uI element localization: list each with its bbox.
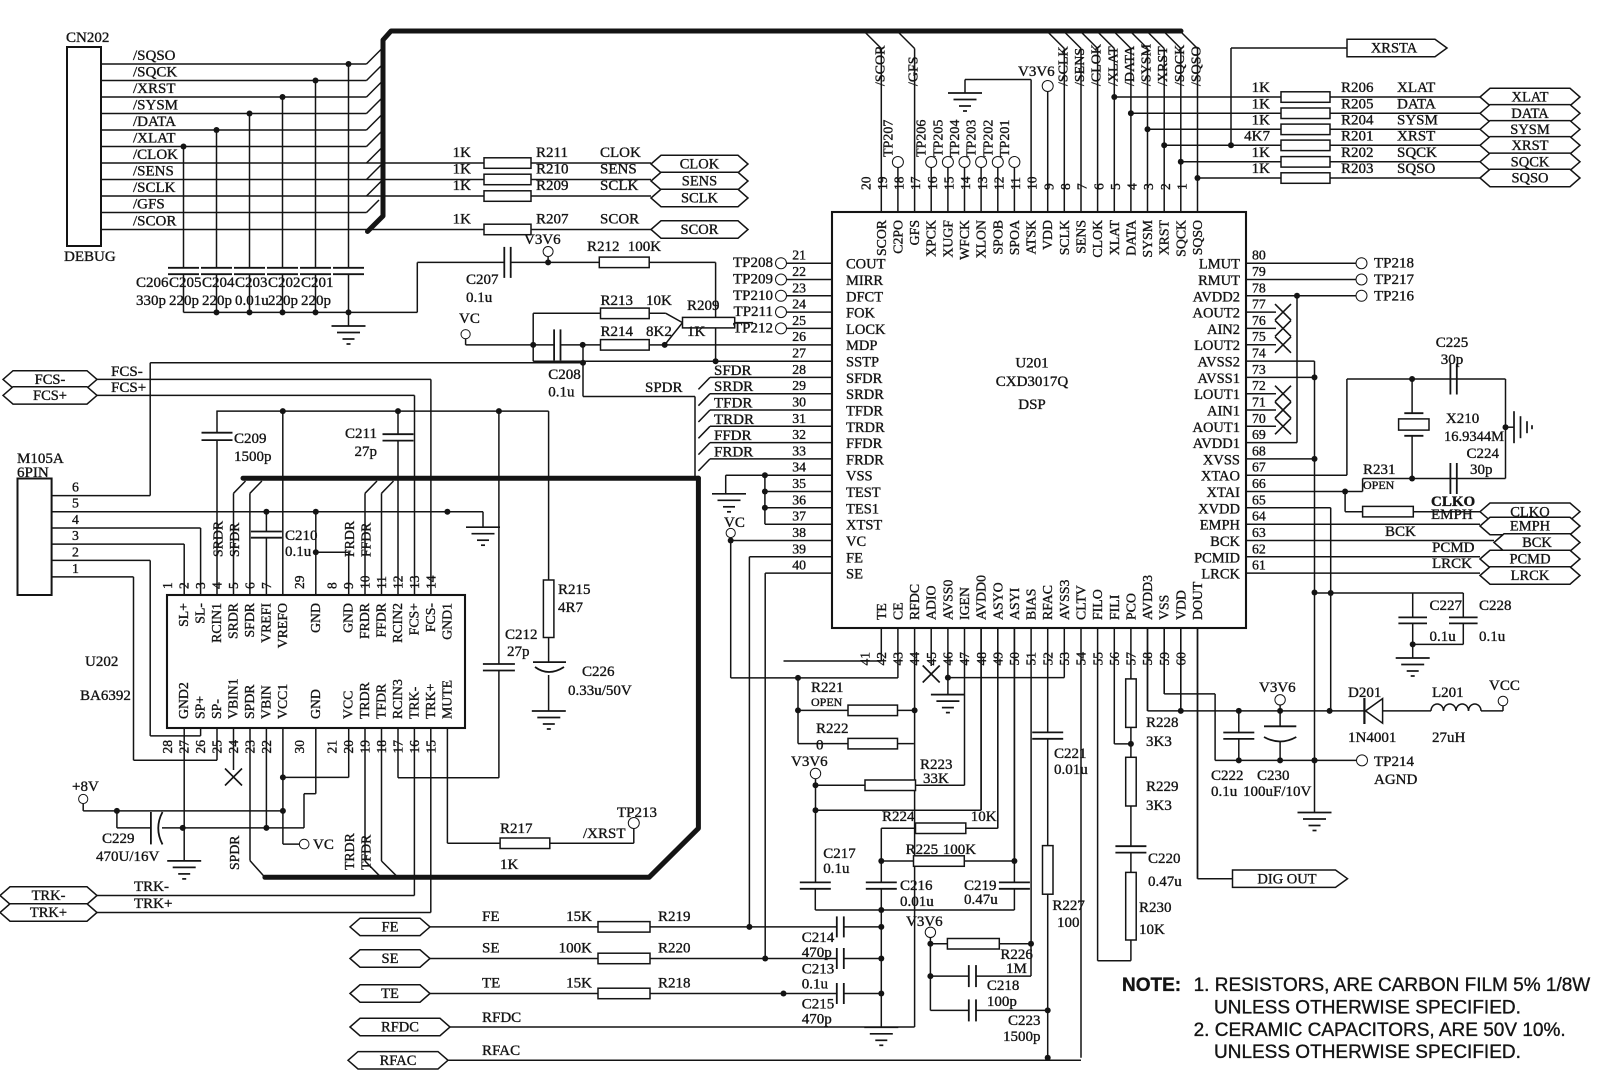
svg-text:SRDR: SRDR [846,387,884,403]
svg-text:R207: R207 [536,212,569,228]
svg-text:AVSS2: AVSS2 [1198,355,1240,371]
svg-text:3K3: 3K3 [1146,798,1172,814]
svg-text:220p: 220p [301,293,331,309]
svg-text:DATA: DATA [1397,96,1436,112]
svg-text:33: 33 [792,443,806,458]
svg-text:BIAS: BIAS [1024,589,1039,620]
svg-text:R206: R206 [1341,80,1374,96]
svg-text:TP216: TP216 [1374,288,1415,304]
svg-text:FFDR: FFDR [374,602,389,637]
svg-text:SSTP: SSTP [846,355,879,371]
svg-text:16.9344M: 16.9344M [1444,429,1504,445]
svg-text:ASYI: ASYI [1007,587,1022,620]
svg-text:SRDR: SRDR [714,379,753,395]
svg-text:62: 62 [1252,541,1266,556]
svg-text:67: 67 [1252,460,1266,475]
svg-text:15: 15 [942,176,957,190]
svg-text:/GFS: /GFS [907,56,922,86]
svg-text:SCLK: SCLK [681,191,719,207]
svg-text:4: 4 [72,512,79,527]
svg-text:DEBUG: DEBUG [64,249,116,265]
svg-text:29: 29 [792,378,806,393]
svg-text:C216: C216 [900,878,933,894]
svg-text:C207: C207 [466,272,499,288]
svg-text:SCOR: SCOR [600,212,639,228]
svg-text:R214: R214 [601,324,634,340]
svg-text:FRDR: FRDR [357,602,372,639]
svg-text:C218: C218 [987,978,1020,994]
svg-text:VCC1: VCC1 [275,684,290,719]
svg-text:SPDR: SPDR [227,835,242,870]
svg-text:1K: 1K [500,857,519,873]
svg-text:0.47u: 0.47u [1148,874,1182,890]
svg-text:10K: 10K [971,809,997,825]
svg-text:FCS+: FCS+ [33,388,67,404]
svg-text:VREFO: VREFO [275,603,290,648]
svg-text:PCMID: PCMID [1194,550,1240,566]
svg-text:FE: FE [482,909,500,925]
svg-text:C210: C210 [285,528,318,544]
svg-text:FRDR: FRDR [714,444,753,460]
svg-text:100: 100 [1057,915,1080,931]
svg-text:CE: CE [890,602,905,620]
svg-text:C205: C205 [169,275,202,291]
svg-text:0.1u: 0.1u [802,977,829,993]
svg-text:R205: R205 [1341,96,1374,112]
svg-text:LOUT1: LOUT1 [1194,387,1240,403]
svg-text:SE: SE [846,567,863,583]
svg-text:SFDR: SFDR [242,602,257,637]
svg-text:C215: C215 [802,997,835,1013]
svg-text:EMPH: EMPH [1510,519,1551,535]
svg-text:R218: R218 [658,976,691,992]
svg-text:R224: R224 [882,809,915,825]
svg-text:FE: FE [846,550,863,566]
svg-text:76: 76 [1252,313,1266,328]
svg-text:C227: C227 [1430,598,1463,614]
svg-text:R220: R220 [658,941,691,957]
svg-text:TP205: TP205 [931,120,946,157]
svg-text:0.1u: 0.1u [466,290,493,306]
svg-text:C206: C206 [136,275,169,291]
svg-text:SQCK: SQCK [1511,155,1550,171]
svg-text:MIRR: MIRR [846,273,883,289]
svg-text:21: 21 [325,740,340,754]
svg-text:41: 41 [857,652,872,666]
svg-text:VDD: VDD [1040,220,1055,250]
svg-text:C224: C224 [1467,446,1500,462]
svg-text:70: 70 [1252,411,1266,426]
svg-text:13: 13 [975,176,990,190]
svg-text:30: 30 [792,395,806,410]
svg-text:6: 6 [1091,183,1106,190]
svg-text:DOUT: DOUT [1190,581,1205,620]
svg-text:UNLESS OTHERWISE SPECIFIED.: UNLESS OTHERWISE SPECIFIED. [1214,1042,1521,1063]
svg-text:65: 65 [1252,492,1266,507]
svg-text:TP203: TP203 [965,120,980,157]
svg-text:27uH: 27uH [1432,730,1466,746]
svg-text:SQCK: SQCK [1173,220,1188,257]
svg-text:470p: 470p [802,1012,832,1028]
svg-text:16: 16 [925,176,940,190]
svg-text:SPDR: SPDR [645,380,683,396]
svg-text:100p: 100p [987,994,1017,1010]
svg-text:68: 68 [1252,443,1266,458]
svg-text:19: 19 [875,176,890,190]
svg-text:EMPH: EMPH [1200,518,1241,534]
svg-text:SQSO: SQSO [1397,161,1436,177]
svg-text:25: 25 [792,313,806,328]
svg-text:DATA: DATA [1511,106,1549,122]
svg-text:C223: C223 [1008,1013,1041,1029]
svg-text:30p: 30p [1441,352,1464,368]
svg-text:1. RESISTORS, ARE CARBON FILM: 1. RESISTORS, ARE CARBON FILM 5% 1/8W [1194,975,1591,996]
svg-text:ADIO: ADIO [924,585,939,620]
svg-text:37: 37 [792,509,806,524]
svg-text:GND1: GND1 [439,603,454,640]
svg-text:RFDC: RFDC [907,584,922,620]
svg-text:XLAT: XLAT [1397,80,1435,96]
svg-text:RMUT: RMUT [1198,273,1240,289]
svg-text:SFDR: SFDR [227,522,242,557]
svg-text:72: 72 [1252,378,1266,393]
svg-text:PCMD: PCMD [1509,552,1550,568]
svg-text:20: 20 [858,176,873,190]
svg-text:+8V: +8V [72,779,99,795]
svg-text:BCK: BCK [1210,534,1240,550]
svg-text:XTAI: XTAI [1207,485,1241,501]
svg-text:75: 75 [1252,329,1266,344]
svg-text:TRDR: TRDR [714,412,754,428]
svg-text:GND2: GND2 [176,682,191,719]
svg-text:C212: C212 [505,627,538,643]
svg-text:11: 11 [1008,177,1023,190]
svg-text:L201: L201 [1432,685,1464,701]
svg-text:R213: R213 [601,293,634,309]
svg-text:220p: 220p [202,293,232,309]
svg-text:7: 7 [1075,183,1090,190]
svg-text:12: 12 [991,177,1006,191]
svg-text:U201: U201 [1015,356,1048,372]
svg-text:BA6392: BA6392 [80,688,131,704]
svg-text:TFDR: TFDR [846,404,883,420]
svg-text:/SCLK: /SCLK [1056,46,1071,86]
svg-text:31: 31 [792,411,806,426]
svg-text:VSS: VSS [1157,595,1172,620]
svg-text:36: 36 [792,492,806,507]
svg-text:/DATA: /DATA [1123,45,1138,86]
svg-text:LRCK: LRCK [1511,568,1550,584]
svg-text:61: 61 [1252,558,1266,573]
svg-text:R230: R230 [1139,900,1172,916]
svg-text:FCS-: FCS- [423,603,438,633]
svg-text:16: 16 [407,740,422,754]
svg-text:CLOK: CLOK [680,157,720,173]
svg-text:0.1u: 0.1u [823,861,850,877]
svg-text:C229: C229 [102,831,135,847]
svg-text:SCLK: SCLK [600,178,639,194]
svg-text:1K: 1K [453,145,472,161]
svg-text:FFDR: FFDR [714,428,752,444]
svg-text:AGND: AGND [1374,772,1417,788]
svg-text:39: 39 [792,541,806,556]
svg-text:R209: R209 [536,178,569,194]
svg-text:15K: 15K [566,909,592,925]
svg-text:V3V6: V3V6 [524,232,561,248]
svg-text:30p: 30p [1470,462,1493,478]
svg-text:220p: 220p [268,293,298,309]
svg-text:TP201: TP201 [998,120,1013,157]
svg-text:TP202: TP202 [981,120,996,157]
svg-text:R204: R204 [1341,112,1374,128]
svg-text:LOUT2: LOUT2 [1194,338,1240,354]
svg-text:XLAT: XLAT [1107,219,1122,255]
svg-text:0.1u: 0.1u [1211,784,1238,800]
svg-text:/SENS: /SENS [133,164,174,180]
svg-text:220p: 220p [169,293,199,309]
svg-text:8K2: 8K2 [646,324,672,340]
svg-text:80: 80 [1252,248,1266,263]
svg-text:R221: R221 [811,680,844,696]
svg-text:0.1u: 0.1u [1479,629,1506,645]
svg-text:35: 35 [792,476,806,491]
svg-text:2: 2 [1158,183,1173,190]
svg-text:FE: FE [382,920,399,936]
svg-text:C226: C226 [582,664,615,680]
svg-text:FRDR: FRDR [342,520,357,557]
svg-text:22: 22 [792,264,806,279]
svg-text:74: 74 [1252,346,1266,361]
svg-text:C209: C209 [234,431,267,447]
svg-text:0.1u: 0.1u [1430,629,1457,645]
svg-text:66: 66 [1252,476,1266,491]
svg-text:XTST: XTST [846,518,882,534]
svg-text:63: 63 [1252,525,1266,540]
svg-text:10K: 10K [646,293,672,309]
svg-text:15: 15 [423,740,438,754]
svg-text:R202: R202 [1341,145,1374,161]
svg-text:C214: C214 [802,930,835,946]
svg-text:4K7: 4K7 [1244,128,1270,144]
svg-text:8: 8 [325,582,340,589]
svg-text:10K: 10K [1139,922,1165,938]
svg-text:CLTV: CLTV [1074,585,1089,620]
svg-text:IGEN: IGEN [957,587,972,620]
svg-text:100K: 100K [628,239,662,255]
svg-text:XRST: XRST [1397,128,1435,144]
svg-text:/SYSM: /SYSM [1140,43,1155,86]
svg-text:XRST: XRST [1511,138,1548,154]
svg-text:R212: R212 [587,239,620,255]
svg-text:VSS: VSS [846,469,873,485]
svg-text:100K: 100K [943,842,977,858]
svg-text:CN202: CN202 [66,30,109,46]
svg-text:SFDR: SFDR [846,371,883,387]
svg-text:PCO: PCO [1123,593,1138,620]
svg-text:6: 6 [72,480,79,495]
svg-text:R217: R217 [500,821,533,837]
svg-text:SRDR: SRDR [226,602,241,639]
svg-text:R227: R227 [1052,898,1085,914]
svg-text:DATA: DATA [1123,220,1138,256]
svg-text:1K: 1K [1252,80,1271,96]
svg-text:SENS: SENS [1074,220,1089,254]
svg-text:40: 40 [792,558,806,573]
svg-text:3: 3 [1141,183,1156,190]
svg-text:SQSO: SQSO [1511,171,1548,187]
svg-text:XTAO: XTAO [1201,469,1240,485]
svg-text:13: 13 [407,575,422,589]
svg-text:AOUT1: AOUT1 [1192,420,1240,436]
svg-text:1K: 1K [1252,161,1271,177]
svg-text:C225: C225 [1436,335,1469,351]
svg-text:NOTE:: NOTE: [1122,975,1181,996]
svg-text:1M: 1M [1006,961,1027,977]
svg-text:VREFI: VREFI [258,603,273,643]
svg-text:SE: SE [482,941,500,957]
svg-text:/XLAT: /XLAT [133,131,176,147]
svg-text:RCIN3: RCIN3 [390,679,405,719]
svg-text:UNLESS OTHERWISE SPECIFIED.: UNLESS OTHERWISE SPECIFIED. [1214,997,1521,1018]
svg-text:C230: C230 [1257,768,1290,784]
svg-text:RCIN2: RCIN2 [390,603,405,643]
svg-text:AVSS0: AVSS0 [940,580,955,620]
svg-text:SENS: SENS [682,174,717,190]
svg-text:VC: VC [724,515,745,531]
svg-text:69: 69 [1252,427,1266,442]
svg-text:C203: C203 [235,275,268,291]
svg-text:TP206: TP206 [915,120,930,157]
svg-text:26: 26 [792,329,806,344]
svg-text:77: 77 [1252,297,1266,312]
svg-text:FOK: FOK [846,306,876,322]
svg-text:/SQSO: /SQSO [133,48,176,64]
svg-text:XLAT: XLAT [1511,90,1548,106]
svg-text:/SENS: /SENS [1073,48,1088,86]
svg-text:2: 2 [72,544,79,559]
svg-text:TRK-: TRK- [134,879,169,895]
svg-text:MDP: MDP [846,338,877,354]
svg-text:/SQCK: /SQCK [1173,45,1188,86]
svg-text:27: 27 [792,346,806,361]
svg-text:SQCK: SQCK [1397,145,1437,161]
svg-text:/XRST: /XRST [583,826,626,842]
svg-text:3: 3 [72,528,79,543]
svg-text:3K3: 3K3 [1146,734,1172,750]
svg-text:TP211: TP211 [734,304,773,320]
svg-text:SP-: SP- [209,699,224,719]
svg-text:XRSTA: XRSTA [1371,41,1418,57]
svg-text:EMPH: EMPH [1431,507,1473,523]
svg-text:TE: TE [381,986,399,1002]
svg-text:R231: R231 [1363,462,1396,478]
svg-text:1: 1 [160,582,175,589]
svg-text:FFDR: FFDR [359,522,374,557]
svg-text:FILO: FILO [1090,589,1105,620]
svg-text:R201: R201 [1341,128,1374,144]
svg-text:5: 5 [72,496,79,511]
svg-text:V3V6: V3V6 [791,754,828,770]
svg-text:ATSK: ATSK [1024,220,1039,255]
svg-text:R215: R215 [558,582,591,598]
svg-text:/SYSM: /SYSM [133,98,178,114]
svg-text:C202: C202 [268,275,301,291]
svg-text:/DATA: /DATA [133,114,176,130]
svg-text:VC: VC [459,311,480,327]
svg-text:BCK: BCK [1522,535,1552,551]
svg-text:15K: 15K [566,976,592,992]
svg-text:/GFS: /GFS [133,197,165,213]
svg-text:V3V6: V3V6 [1018,64,1055,80]
svg-text:WFCK: WFCK [957,220,972,260]
svg-text:BCK: BCK [1385,524,1416,540]
svg-text:TP209: TP209 [733,272,773,288]
svg-text:71: 71 [1252,395,1266,410]
svg-text:TRDR: TRDR [342,832,357,870]
svg-text:SPOB: SPOB [990,220,1005,255]
svg-text:1K: 1K [453,212,472,228]
svg-text:0.01u: 0.01u [1054,762,1088,778]
svg-text:SP+: SP+ [193,696,208,719]
svg-text:XPCK: XPCK [924,220,939,257]
svg-text:TRK-: TRK- [32,888,66,904]
svg-text:78: 78 [1252,280,1266,295]
svg-text:100K: 100K [559,941,593,957]
svg-text:/SQCK: /SQCK [133,65,177,81]
svg-text:VC: VC [313,837,334,853]
svg-text:1500p: 1500p [1003,1029,1041,1045]
svg-text:V3V6: V3V6 [1259,680,1296,696]
svg-text:R211: R211 [536,145,568,161]
svg-text:38: 38 [792,525,806,540]
svg-text:21: 21 [792,248,806,263]
svg-text:79: 79 [1252,264,1266,279]
svg-text:TRDR: TRDR [357,681,372,719]
svg-text:TFDR: TFDR [714,396,752,412]
svg-text:/XRST: /XRST [1156,46,1171,86]
svg-text:PCMD: PCMD [1432,540,1475,556]
svg-text:DFCT: DFCT [846,289,883,305]
svg-text:0.01u: 0.01u [235,293,269,309]
svg-text:AVDD2: AVDD2 [1193,289,1240,305]
svg-text:/SCLK: /SCLK [133,180,176,196]
svg-text:DSP: DSP [1018,397,1046,413]
svg-text:SCOR: SCOR [874,219,889,256]
svg-text:5: 5 [1108,183,1123,190]
svg-text:RFAC: RFAC [380,1053,417,1069]
svg-text:/XLAT: /XLAT [1106,46,1121,86]
svg-text:24: 24 [792,297,806,312]
svg-text:17: 17 [908,176,923,190]
svg-text:FCS-: FCS- [35,372,66,388]
svg-text:/CLOK: /CLOK [133,147,178,163]
svg-text:VDD: VDD [1173,590,1188,620]
svg-text:33K: 33K [923,771,949,787]
svg-text:1K: 1K [453,162,472,178]
svg-text:73: 73 [1252,362,1266,377]
svg-text:AVSS3: AVSS3 [1057,580,1072,620]
svg-text:/SQSO: /SQSO [1190,46,1205,86]
svg-text:SENS: SENS [600,162,637,178]
svg-text:/XRST: /XRST [133,81,176,97]
svg-text:SCOR: SCOR [681,222,719,238]
svg-text:R228: R228 [1146,715,1179,731]
svg-text:TRK+: TRK+ [30,905,67,921]
svg-text:TRK+: TRK+ [134,896,172,912]
svg-text:/SCOR: /SCOR [873,45,888,86]
svg-text:TE: TE [482,976,500,992]
svg-text:0.1u: 0.1u [285,544,312,560]
